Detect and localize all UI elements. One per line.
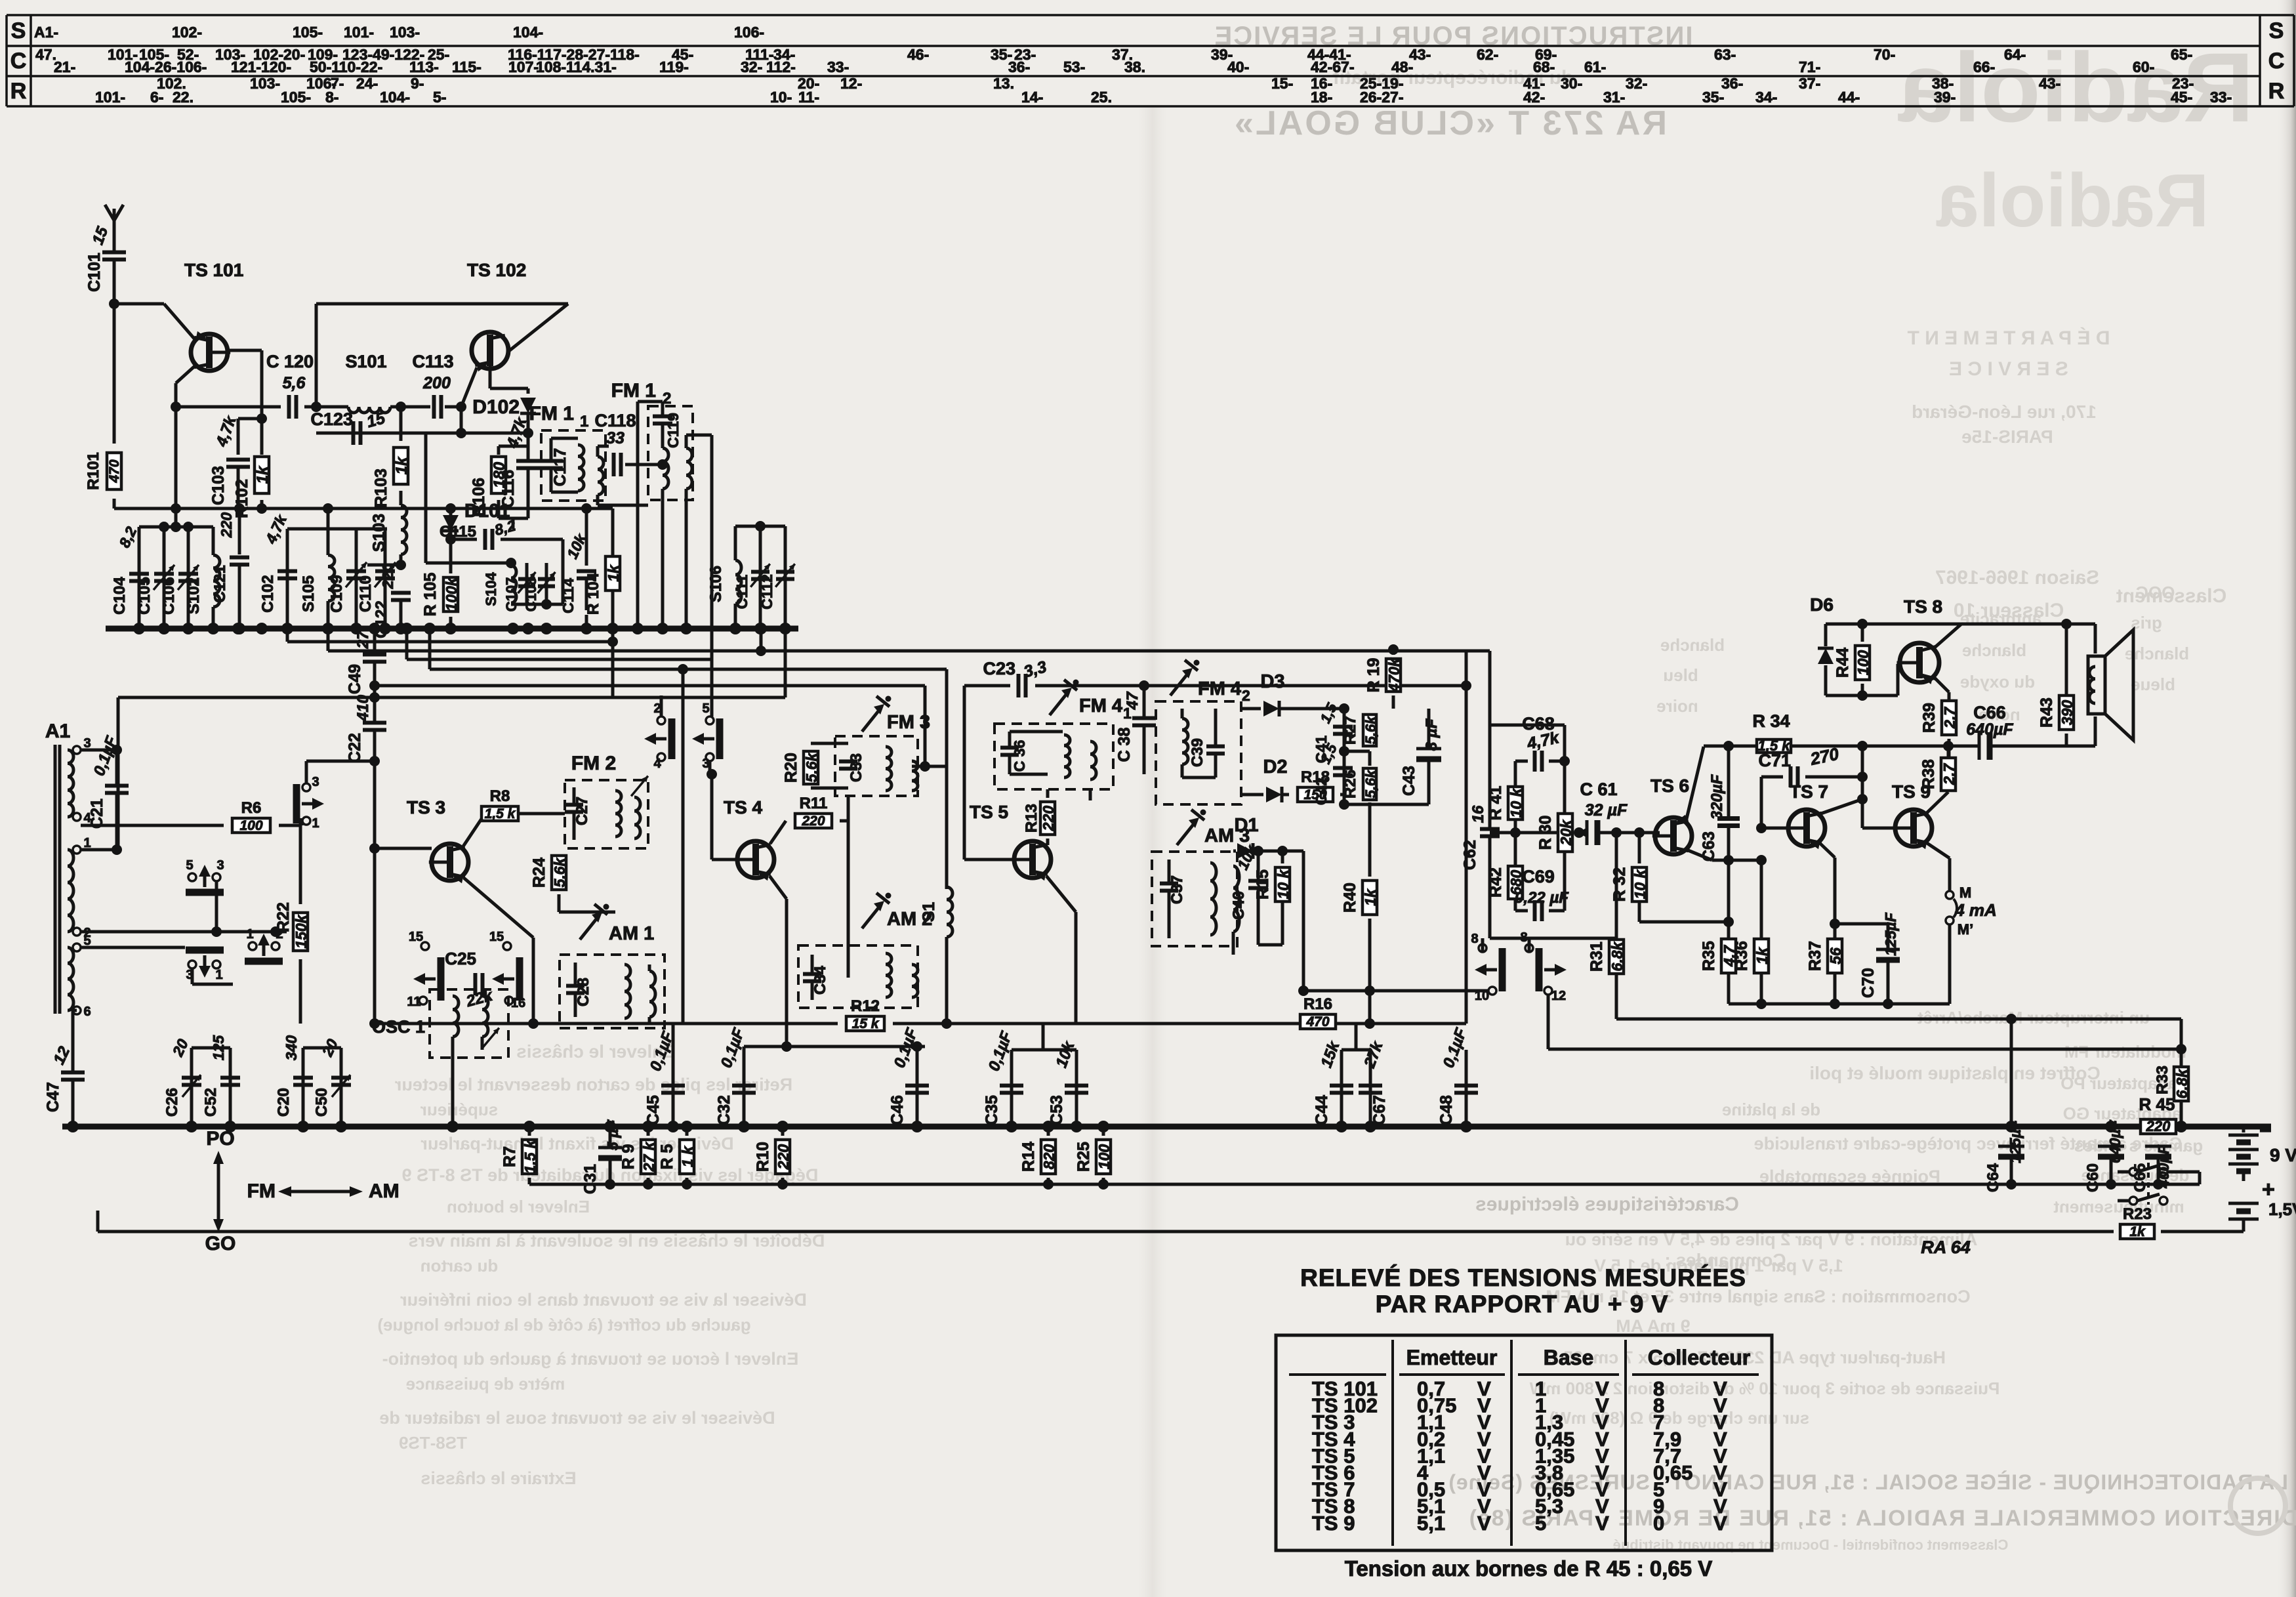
- wire rail y1599: [1548, 1048, 2181, 1051]
- wire TS3 emitter: [464, 878, 533, 938]
- power switch: [2129, 1168, 2137, 1176]
- capacitor C107: [525, 563, 529, 604]
- wire C101 to node: [113, 260, 116, 304]
- svg-text:C25: C25: [445, 949, 476, 968]
- svg-text:RA 64: RA 64: [1921, 1237, 1971, 1257]
- wire TS7 collector: [1819, 799, 1862, 814]
- capacitor C45 0.1uF: [672, 1024, 675, 1127]
- node FM3 out: [920, 761, 930, 772]
- wire R11 to FM3: [847, 796, 850, 978]
- resistor R43 390: [2061, 619, 2072, 629]
- capacitor C60 640uF: [2110, 1127, 2112, 1144]
- transistor TS102: [472, 332, 508, 369]
- svg-text:RA 273 T «CLUB GOAL»: RA 273 T «CLUB GOAL»: [1233, 104, 1667, 142]
- svg-text:TS 6: TS 6: [1650, 776, 1689, 796]
- capacitor C25 22k: [474, 973, 478, 995]
- svg-text:R: R: [10, 79, 27, 104]
- svg-text:S E R V I C E: S E R V I C E: [1949, 358, 2068, 380]
- wire TS101 emitter: [176, 365, 196, 383]
- svg-text:R103: R103: [372, 468, 390, 508]
- svg-text:8-: 8-: [325, 89, 338, 106]
- transistor TS7: [1788, 810, 1825, 846]
- inductor S105: [327, 529, 330, 555]
- resistor R42 680: [1515, 865, 1516, 867]
- svg-text:15: 15: [409, 930, 423, 944]
- trimmer FM4_1: [1050, 692, 1068, 715]
- wire C20 C50 tie: [303, 1047, 341, 1050]
- svg-text:1k: 1k: [1362, 888, 1379, 906]
- capacitor C115 8.2: [483, 529, 487, 550]
- wire C115 line y822: [451, 538, 477, 541]
- inductor S106 and C111 C112 tank: [735, 525, 785, 528]
- wire TS9 collector: [1926, 792, 1948, 814]
- wire FM2 sec down: [634, 839, 635, 912]
- svg-text:Enlever l écrou se trouvant: Enlever l écrou se trouvant à gauche du …: [382, 1349, 799, 1369]
- node mid detector: [1339, 746, 1349, 757]
- svg-text:220: 220: [2146, 1118, 2171, 1134]
- svg-text:gauche du coffret (à côté de l: gauche du coffret (à côté de la touche l…: [377, 1315, 750, 1335]
- transformer FM4_1 dashed box: [994, 724, 1113, 789]
- svg-text:R23: R23: [2123, 1205, 2152, 1223]
- wire TS101 collector: [229, 349, 262, 352]
- svg-text:C66: C66: [1973, 703, 2006, 722]
- svg-text:9 V: 9 V: [2270, 1145, 2296, 1165]
- transformer FM1_1 dashed box: [541, 430, 605, 501]
- svg-text:C108: C108: [523, 577, 539, 612]
- svg-text:C62: C62: [1461, 840, 1479, 870]
- capacitor C101: [102, 251, 126, 255]
- svg-text:10 k: 10 k: [1275, 869, 1292, 899]
- wire AM3 detector output column: [1254, 850, 1303, 853]
- capacitor C36: [1008, 732, 1012, 747]
- svg-text:C70: C70: [1859, 968, 1877, 998]
- switch contacts 10 12: [1488, 987, 1496, 995]
- capacitor C111: [759, 526, 762, 627]
- svg-text:410: 410: [354, 694, 372, 722]
- capacitor C64 125uF: [1998, 1145, 2024, 1148]
- transformer AM2 dashed box: [798, 945, 918, 1008]
- wire TS102 collector to rail: [510, 304, 568, 350]
- capacitor C40 10k: [1257, 851, 1260, 879]
- svg-text:108-114.31-: 108-114.31-: [536, 58, 617, 75]
- svg-text:blanche: blanche: [1660, 635, 1725, 655]
- svg-text:C67: C67: [1370, 1095, 1389, 1125]
- resistor R33 6.8k: [2176, 1044, 2186, 1054]
- svg-text:C40: C40: [1230, 891, 1248, 920]
- wire C61 node down risers: [1615, 833, 1618, 938]
- svg-text:R14: R14: [1019, 1142, 1038, 1172]
- svg-text:+: +: [2262, 1177, 2275, 1202]
- wire C71 line: [1760, 777, 1763, 828]
- svg-text:Tension aux bornes de R 45: Tension aux bornes de R 45 : 0,65 V: [1345, 1556, 1713, 1581]
- svg-text:6-: 6-: [150, 89, 163, 106]
- capacitor C113 200: [432, 395, 436, 419]
- svg-text:FM 4: FM 4: [1198, 678, 1241, 699]
- svg-text:8: 8: [1471, 932, 1478, 946]
- wire TS8 collector: [1935, 624, 1961, 648]
- svg-text:Collecteur: Collecteur: [1648, 1346, 1750, 1369]
- svg-text:22.: 22.: [173, 89, 194, 106]
- OSC1 windings: [453, 996, 459, 1037]
- label GO arrow: [213, 1219, 224, 1232]
- wire TS7 emitter: [1819, 842, 1835, 858]
- FM4_1 winding secondary: [1090, 741, 1096, 779]
- svg-text:R: R: [2268, 79, 2285, 104]
- svg-text:104-: 104-: [380, 89, 410, 106]
- svg-text:Base: Base: [1544, 1346, 1594, 1369]
- switch contact pin2-4: [657, 716, 665, 724]
- svg-text:13.: 13.: [993, 75, 1014, 92]
- svg-text:61-: 61-: [1584, 58, 1606, 75]
- svg-text:104-: 104-: [513, 24, 543, 41]
- capacitor C44 15k: [1340, 1050, 1343, 1127]
- A1 winding 3: [68, 947, 73, 1010]
- wire TS9 base: [1862, 827, 1895, 830]
- wire TS102 base diagonal: [461, 367, 477, 407]
- resistor R11 220: [770, 821, 786, 844]
- wire pin12 down: [1547, 995, 1550, 1049]
- FM2 winding primary: [615, 791, 621, 837]
- capacitor C114 10k: [581, 503, 592, 514]
- A1 winding 1: [68, 750, 73, 817]
- svg-text:OOG: OOG: [2135, 583, 2175, 602]
- svg-text:39-: 39-: [1934, 89, 1956, 106]
- component location index table: [7, 14, 2294, 16]
- svg-text:gris: gris: [2131, 613, 2162, 633]
- wire rail y1560: [375, 1022, 838, 1026]
- svg-text:1k: 1k: [2129, 1224, 2146, 1239]
- capacitor C52 125: [229, 1048, 232, 1127]
- svg-text:470: 470: [1305, 1014, 1329, 1029]
- wire C40 R15 bottom tie: [1258, 944, 1282, 947]
- svg-text:0: 0: [1653, 1512, 1664, 1535]
- svg-text:1: 1: [246, 927, 253, 942]
- node S103 C122: [396, 560, 406, 570]
- wire A1 pin2: [81, 930, 233, 934]
- svg-text:S104: S104: [483, 572, 499, 606]
- capacitor C70 125uF: [1835, 923, 1888, 926]
- svg-text:102-: 102-: [172, 24, 202, 41]
- svg-text:5,6: 5,6: [283, 374, 306, 392]
- svg-text:470: 470: [107, 459, 122, 483]
- svg-text:C: C: [10, 49, 27, 73]
- wire emitter rail y1530: [1729, 1003, 1950, 1006]
- svg-text:14-: 14-: [1021, 89, 1043, 106]
- svg-text:R40: R40: [1341, 882, 1359, 913]
- svg-text:Dévisser le vis se trouvan: Dévisser le vis se trouvant sous le radi…: [379, 1408, 775, 1428]
- wire C120 line y620: [176, 405, 281, 409]
- switch wafer contacts PO GO: [188, 873, 196, 881]
- diode D3: [1241, 707, 1261, 711]
- FM1_2 winding primary: [663, 448, 668, 489]
- resistor R10 220: [781, 1127, 785, 1136]
- svg-text:R7: R7: [501, 1146, 519, 1167]
- FM3 winding secondary: [912, 761, 918, 791]
- svg-text:S. A. LA RADIOTECHNIQUE - SI: S. A. LA RADIOTECHNIQUE - SIÈGE SOCIAL :…: [1448, 1470, 2296, 1494]
- resistor R26 5.6k: [1368, 751, 1372, 766]
- svg-text:113-: 113-: [409, 58, 439, 75]
- svg-text:C103: C103: [209, 466, 228, 505]
- wire D102 col to R106 C116: [527, 433, 530, 446]
- resistor R31 6.8k: [1615, 923, 1618, 936]
- svg-text:66-: 66-: [1973, 58, 1995, 75]
- capacitor C48 0.1uF: [1465, 1050, 1468, 1127]
- resistor R24 5.6k: [558, 848, 560, 850]
- FM1_2 winding secondary: [686, 448, 692, 489]
- wire riser x934 down: [611, 629, 615, 697]
- AM3 winding secondary: [1233, 866, 1239, 932]
- wire TS9 emitter: [1926, 842, 1950, 858]
- wire FM1_2 down legs: [636, 500, 640, 627]
- switch contacts 15 15 11 16: [421, 942, 429, 950]
- svg-text:TS 8: TS 8: [1904, 596, 1942, 617]
- svg-text:R35: R35: [1700, 941, 1718, 971]
- FM section ground bus: [106, 626, 798, 632]
- svg-text:R 105: R 105: [421, 573, 440, 617]
- svg-text:3: 3: [312, 775, 319, 789]
- wire switch 10 line: [1303, 989, 1488, 993]
- resistor R36 1k: [1760, 860, 1763, 939]
- svg-text:supérieur: supérieur: [420, 1100, 499, 1119]
- capacitor C112: [784, 526, 787, 627]
- resistor R35 4.7: [1728, 938, 1729, 940]
- wire A1 pin3 to C21: [81, 749, 117, 752]
- resistor R41 10k: [1514, 761, 1517, 787]
- wire top rail right segment to TS102: [316, 302, 568, 306]
- wire speaker top feed: [2066, 623, 2095, 626]
- wire long rail y1045 (C23 line): [375, 684, 925, 688]
- svg-text:R33: R33: [2154, 1066, 2171, 1094]
- wire TS5 collector to AM3: [1076, 957, 1233, 959]
- svg-text:D101: D101: [464, 501, 510, 522]
- svg-text:R101: R101: [85, 452, 102, 489]
- resistor R8 1.5k: [463, 817, 483, 846]
- svg-text:V: V: [1595, 1512, 1609, 1535]
- svg-text:12-: 12-: [840, 75, 862, 92]
- svg-text:C37: C37: [1168, 875, 1186, 904]
- wire y1595 line: [744, 1045, 925, 1048]
- wire x3066 column: [2010, 1019, 2013, 1127]
- svg-text:C105: C105: [136, 577, 154, 614]
- bottom tuning bank cluster 1: [139, 526, 213, 529]
- svg-text:150k: 150k: [293, 914, 310, 948]
- solid wire loop FM1_2: [638, 400, 663, 404]
- wire rail y1005 staircase 3: [407, 658, 712, 661]
- svg-text:40-: 40-: [1227, 58, 1249, 75]
- svg-text:TS8-TS9: TS8-TS9: [399, 1433, 467, 1453]
- capacitor C102 4.7k: [277, 570, 297, 573]
- svg-text:47: 47: [1124, 691, 1141, 710]
- svg-text:C69: C69: [1522, 867, 1555, 886]
- svg-text:mètre de puissance: mètre de puissance: [406, 1374, 565, 1394]
- wire TS6 collector: [1686, 747, 1704, 821]
- resistor R27 5.6k: [1369, 709, 1370, 710]
- wire C36-winding ties: [1010, 730, 1063, 734]
- svg-text:2,7: 2,7: [1940, 763, 1958, 785]
- svg-text:5: 5: [702, 701, 709, 716]
- capacitor C49 27: [363, 653, 386, 657]
- svg-text:C47: C47: [44, 1082, 62, 1112]
- svg-text:C60: C60: [2084, 1163, 2102, 1192]
- diode D102: [527, 388, 530, 394]
- wire A1 pin1: [81, 848, 117, 852]
- svg-text:1,5V: 1,5V: [2268, 1199, 2296, 1219]
- wire detector node column: [1343, 709, 1346, 804]
- svg-text:115-: 115-: [452, 58, 482, 75]
- svg-text:R38: R38: [1919, 759, 1938, 789]
- svg-text:68-: 68-: [1533, 58, 1555, 75]
- inductor S101: [348, 407, 390, 413]
- svg-text:100: 100: [1096, 1144, 1113, 1170]
- svg-text:C33: C33: [848, 753, 865, 782]
- svg-text:TS 9: TS 9: [1312, 1512, 1355, 1535]
- svg-text:RELEVÉ DES TENSIONS MESURÉE: RELEVÉ DES TENSIONS MESURÉES: [1300, 1264, 1746, 1291]
- svg-text:2,7: 2,7: [1941, 707, 1958, 729]
- svg-text:modulateur FM: modulateur FM: [2064, 1042, 2186, 1062]
- current test point 4mA: [1948, 858, 1952, 891]
- wire detector top hookup: [1343, 708, 1345, 709]
- svg-text:Dévisser la vis se trouvant: Dévisser la vis se trouvant dans le coin…: [400, 1290, 807, 1310]
- capacitor C66 640uF: [1978, 732, 1981, 760]
- svg-text:16: 16: [1469, 805, 1487, 823]
- resistor R39 2.7: [1948, 692, 1951, 701]
- svg-text:105-: 105-: [281, 89, 311, 106]
- svg-text:18-: 18-: [1311, 89, 1332, 106]
- capacitor C67 27k: [1369, 1050, 1372, 1127]
- svg-text:100: 100: [239, 818, 262, 833]
- svg-text:C107: C107: [503, 577, 520, 612]
- svg-text:C119: C119: [665, 413, 682, 448]
- svg-text:FM 3: FM 3: [887, 712, 930, 733]
- switch wafer 2: [186, 947, 224, 954]
- wire switch risers top: [1481, 938, 1485, 952]
- svg-text:C43: C43: [1400, 766, 1418, 796]
- svg-text:31-: 31-: [1603, 89, 1625, 106]
- svg-text:1,5 k: 1,5 k: [485, 806, 516, 821]
- svg-text:1k: 1k: [254, 465, 272, 484]
- svg-text:R39: R39: [1920, 703, 1938, 733]
- svg-text:220: 220: [1040, 806, 1057, 832]
- resistor R16 470 inline: [1300, 1014, 1336, 1029]
- capacitor C63 320uF: [1727, 746, 1731, 818]
- resistor R9 27k: [647, 1127, 650, 1136]
- svg-text:62-: 62-: [1477, 46, 1498, 63]
- capacitor C103 4.7k: [226, 458, 250, 462]
- svg-text:R 9: R 9: [619, 1144, 638, 1170]
- wire TS7 base: [1756, 823, 1767, 833]
- svg-text:R12: R12: [851, 997, 880, 1015]
- svg-text:R 45: R 45: [2139, 1094, 2175, 1114]
- svg-text:C46: C46: [888, 1095, 907, 1125]
- svg-text:125µF: 125µF: [2007, 1119, 2024, 1163]
- svg-text:R 104: R 104: [584, 572, 602, 615]
- svg-text:48-: 48-: [1391, 58, 1413, 75]
- svg-text:15-: 15-: [1271, 75, 1293, 92]
- svg-text:6: 6: [83, 1005, 91, 1019]
- svg-text:35-: 35-: [1702, 89, 1724, 106]
- svg-text:30-: 30-: [1561, 75, 1582, 92]
- svg-text:5,1: 5,1: [1417, 1512, 1445, 1535]
- AM1 winding primary: [625, 964, 630, 1018]
- wire contact3 riser: [305, 761, 308, 783]
- wire vertical x649 from C123 line: [424, 433, 428, 563]
- wire speaker return: [2094, 716, 2097, 746]
- svg-text:S: S: [2269, 18, 2284, 43]
- wire TS102 emitter: [489, 370, 492, 388]
- resistor R20 5.6k: [810, 743, 811, 748]
- svg-text:C110: C110: [357, 575, 375, 612]
- capacitor C118 33: [598, 464, 609, 465]
- transistor TS8: [1900, 643, 1939, 682]
- svg-text:C112: C112: [758, 574, 775, 610]
- svg-text:0,22 µF: 0,22 µF: [1515, 889, 1569, 907]
- capacitor C122 220: [391, 591, 411, 595]
- resistor R37 56: [1834, 938, 1835, 940]
- wire OSC1 connections: [407, 1023, 430, 1024]
- speaker: [2088, 656, 2105, 714]
- svg-text:C20: C20: [275, 1088, 293, 1117]
- battery 1.5V: [2167, 1200, 2244, 1201]
- svg-text:C34: C34: [811, 965, 829, 995]
- svg-text:R 30: R 30: [1536, 816, 1555, 850]
- svg-text:56: 56: [1827, 947, 1844, 964]
- wire C62 box top: [1490, 724, 1565, 727]
- trimmer AM2: [862, 905, 880, 928]
- resistor R101: [113, 304, 116, 444]
- svg-text:11-: 11-: [798, 89, 819, 106]
- svg-text:gamme s ondes: gamme s ondes: [2074, 1136, 2204, 1155]
- svg-text:640µF: 640µF: [2106, 1119, 2123, 1163]
- capacitor C27: [573, 787, 576, 804]
- svg-text:103-: 103-: [250, 75, 280, 92]
- svg-text:C 120: C 120: [266, 352, 314, 371]
- svg-text:FM 1: FM 1: [611, 380, 656, 402]
- wire C123 line y660: [316, 407, 317, 433]
- transistor TS4: [737, 841, 774, 878]
- svg-text:5,6k: 5,6k: [803, 752, 820, 782]
- svg-text:36-: 36-: [1721, 75, 1743, 92]
- svg-text:C39: C39: [1189, 738, 1206, 767]
- wire riser to top rail: [315, 304, 318, 407]
- svg-text:D É P A R T E M E N T: D É P A R T E M E N T: [1908, 327, 2110, 349]
- svg-text:R36: R36: [1732, 941, 1751, 971]
- svg-text:43-: 43-: [2039, 75, 2060, 92]
- wire R20 C33 tie: [811, 742, 848, 745]
- wire rail y1877 with R23: [98, 1230, 2114, 1234]
- trimmer AM3: [1177, 822, 1195, 845]
- svg-text:320µF: 320µF: [1708, 774, 1726, 819]
- capacitor C31 5uF: [609, 1127, 612, 1147]
- svg-text:GO: GO: [205, 1233, 236, 1255]
- wire S1 column: [945, 669, 949, 889]
- svg-text:44-: 44-: [1838, 89, 1860, 106]
- svg-text:33-: 33-: [827, 58, 849, 75]
- transformer FM1_2 dashed box: [648, 406, 693, 500]
- svg-text:C26: C26: [163, 1088, 181, 1117]
- svg-text:R24: R24: [530, 858, 548, 888]
- transistor TS9: [1895, 810, 1932, 846]
- svg-text:R44: R44: [1834, 648, 1852, 678]
- transistor TS5: [1014, 841, 1051, 878]
- trimmer FM3: [862, 709, 880, 732]
- resistor R103 1k: [396, 402, 406, 412]
- wire C44 C67 tie: [1342, 1048, 1370, 1052]
- wire TS8 base: [1862, 694, 1898, 697]
- svg-text:C50: C50: [313, 1088, 331, 1117]
- transformer FM4_2 dashed box: [1156, 701, 1241, 804]
- node collector R102 junction: [256, 413, 267, 424]
- wire rail y978 staircase 1: [287, 640, 613, 644]
